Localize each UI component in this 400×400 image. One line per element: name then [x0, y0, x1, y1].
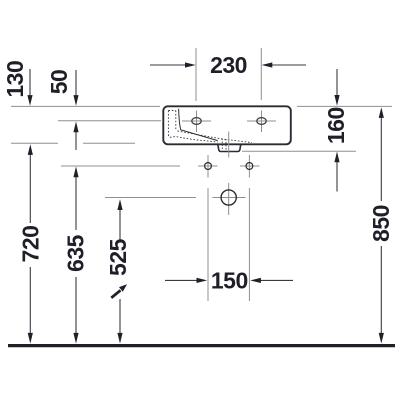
dimension 150 arrow right	[260, 279, 294, 281]
reference line L3 segment a (basin bottom level)	[11, 142, 58, 144]
dimension 525 oblique arrow	[111, 290, 120, 298]
mounting hole right	[240, 155, 260, 178]
dimension 150 arrow left	[165, 279, 198, 281]
dimension 130 arrow down	[29, 69, 31, 96]
dimension 850 line	[380, 116, 382, 201]
svg-text:130: 130	[2, 61, 28, 98]
dimension 50 arrow down	[75, 70, 77, 96]
tap hole cross right	[247, 111, 276, 133]
dimension 525 line	[119, 208, 121, 240]
svg-text:230: 230	[210, 52, 247, 78]
tap hole cross left	[182, 111, 211, 133]
svg-text:150: 150	[211, 268, 248, 294]
floor line	[8, 344, 395, 347]
svg-text:160: 160	[323, 107, 349, 144]
washbasin outline	[163, 106, 290, 144]
outlet circle	[213, 183, 246, 215]
centre axis above outlet	[228, 132, 230, 158]
dimension 230 arrow right	[271, 64, 306, 66]
drain hidden dashed verticals	[222, 139, 226, 151]
reference line L5 (outlet level)	[105, 197, 196, 199]
dimension 160 arrow down	[336, 69, 338, 96]
dimension 720 line	[29, 153, 31, 223]
dimension 50 arrow up	[75, 131, 77, 150]
svg-text:850: 850	[368, 205, 394, 242]
drain outlet	[218, 144, 241, 151]
reference line L1 left (rim top level)	[11, 105, 160, 107]
extension line 230 left	[195, 48, 197, 101]
extension line below mounting hole right	[248, 188, 250, 301]
reference line L2 (tap hole level)	[58, 120, 161, 122]
extension line 230 right	[260, 48, 262, 100]
bowl hidden contour dashed left bar	[168, 111, 217, 143]
extension line below mounting hole left	[207, 188, 209, 301]
reference line L4 (mounting holes level)	[61, 165, 180, 167]
svg-text:525: 525	[105, 238, 131, 276]
bowl hidden contour dashed funnel upper	[178, 131, 253, 143]
dimension 635 line	[75, 175, 77, 230]
mounting hole left	[198, 155, 218, 178]
svg-text:50: 50	[46, 70, 72, 95]
reference line L3 segment b (basin bottom level)	[83, 142, 135, 144]
svg-text:635: 635	[63, 234, 89, 272]
bowl inner edge solid	[179, 109, 218, 141]
reference line L6 (drain bottom level)	[242, 150, 356, 152]
dimension 160 arrow up	[336, 160, 338, 192]
dimension 230 arrow left	[150, 64, 186, 66]
reference line L1 right (rim top level)	[297, 105, 392, 107]
svg-text:720: 720	[17, 226, 43, 263]
